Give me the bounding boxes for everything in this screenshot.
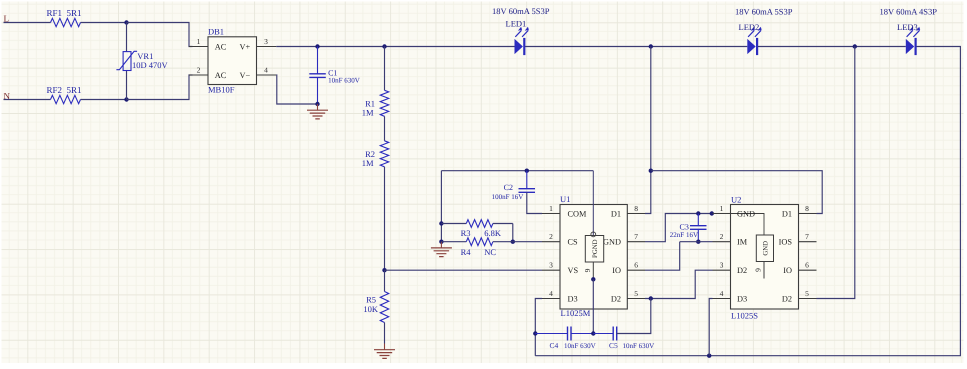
U1 internal PGND line from GND wire [592, 171, 594, 236]
node R1 tap [382, 44, 386, 48]
svg-text:1M: 1M [362, 158, 374, 168]
svg-text:6: 6 [805, 261, 809, 270]
wire IM net down to U1 IO [645, 242, 680, 271]
svg-text:MB10F: MB10F [208, 85, 235, 95]
wire U1 pin4 D3 down to C4 row and bottom rail [535, 299, 542, 356]
capacitor C2 [519, 189, 536, 193]
wire RF1 to junction [81, 22, 127, 24]
svg-text:NC: NC [484, 247, 496, 257]
svg-text:IO: IO [783, 266, 792, 275]
svg-text:10nF 630V: 10nF 630V [623, 342, 655, 350]
U2 pin 6 IO [799, 269, 817, 271]
svg-text:D3: D3 [737, 294, 747, 303]
svg-text:3: 3 [549, 261, 553, 270]
svg-text:18V 60mA 5S3P: 18V 60mA 5S3P [735, 6, 793, 16]
wire VS node to U1 pin3 [385, 269, 543, 271]
svg-text:7: 7 [634, 232, 638, 241]
svg-text:IO: IO [612, 266, 621, 275]
svg-text:AC: AC [215, 71, 227, 80]
wire CS node to U1 pin2 [513, 241, 542, 243]
node junction L-rail [124, 20, 128, 24]
svg-text:DB1: DB1 [208, 26, 224, 36]
svg-text:1: 1 [720, 204, 724, 213]
U2 internal GND box [756, 235, 773, 262]
node R3 left [439, 221, 443, 225]
capacitor C5 [613, 327, 617, 341]
wire R1 to R2 [384, 116, 386, 141]
wire R5 to ground [384, 323, 386, 344]
node pin9/C4/C5 [591, 331, 595, 335]
svg-text:GND: GND [762, 241, 769, 256]
svg-text:C3: C3 [680, 222, 689, 231]
capacitor C2 top lead [526, 171, 528, 189]
U2 pin 8 D1 [799, 213, 817, 215]
wire IM net to U2 pin2 [680, 241, 713, 243]
IC U1 L1025M body [560, 205, 627, 310]
ground under C1 [317, 104, 319, 110]
node ground junction [315, 102, 319, 106]
svg-text:10nF 630V: 10nF 630V [328, 76, 360, 84]
svg-text:R4: R4 [461, 247, 472, 257]
node bottom rail to U2 D3 [707, 354, 711, 358]
svg-text:2: 2 [197, 66, 201, 75]
wire rail to R1 [384, 47, 386, 91]
wire R3 right down to CS [512, 224, 514, 242]
node C3 top tap [696, 211, 700, 215]
svg-text:9: 9 [583, 268, 592, 272]
svg-text:GND: GND [603, 238, 621, 247]
node C4 left junction [533, 331, 537, 335]
capacitor C4 [568, 327, 572, 341]
svg-text:22nF 16V: 22nF 16V [670, 231, 698, 239]
wire N input [4, 99, 51, 101]
wire U2 pin4 D3 down to bottom rail [709, 299, 712, 356]
svg-text:100nF 16V: 100nF 16V [492, 193, 524, 201]
svg-text:VS: VS [568, 266, 579, 275]
U2 pin 3 D2 [713, 269, 731, 271]
svg-text:R5: R5 [366, 295, 376, 305]
varistor VR1 [123, 52, 131, 71]
U1 pin 3 VS [542, 269, 560, 271]
wire C5 up to U1 pin5 row [617, 299, 651, 334]
LED LED2 [747, 39, 755, 54]
LED LED1 [515, 39, 523, 54]
svg-text:PGND: PGND [592, 239, 599, 258]
U1 pin 4 D3 [542, 298, 560, 300]
svg-text:18V 60mA 4S3P: 18V 60mA 4S3P [880, 6, 938, 16]
svg-text:1: 1 [197, 37, 201, 46]
wire DB1 V- to C1 ground node [276, 75, 317, 104]
node U1 D2 tap [649, 296, 653, 300]
svg-text:C4: C4 [550, 341, 559, 350]
wire to DB1 pin2 [127, 75, 193, 100]
svg-text:5: 5 [634, 289, 638, 298]
wire pin9 node to C5 [593, 333, 613, 335]
wire RF2 to junction [81, 99, 127, 101]
wire C4 to pin9 node [571, 333, 593, 335]
wire U2 pin5 D2 to LED2 cathode [817, 47, 855, 299]
svg-text:D1: D1 [611, 209, 621, 218]
wire U1 pin9 to C4/C5 node [592, 279, 594, 333]
DB1 pin 3 [257, 46, 277, 48]
svg-text:IOS: IOS [779, 238, 793, 247]
node R4 left [439, 240, 443, 244]
U2 pin 5 D2 [799, 298, 817, 300]
svg-text:C5: C5 [609, 341, 618, 350]
capacitor C1 bottom lead [317, 77, 319, 104]
svg-text:4: 4 [720, 289, 724, 298]
svg-text:D2: D2 [782, 294, 792, 303]
svg-text:6: 6 [634, 261, 638, 270]
svg-text:4: 4 [264, 66, 268, 75]
wire R2 to VS node [384, 167, 386, 270]
capacitor C3 bottom lead [697, 229, 699, 241]
svg-text:8: 8 [805, 204, 809, 213]
node C1 tap [315, 44, 319, 48]
svg-text:7: 7 [805, 232, 809, 241]
svg-text:2: 2 [549, 232, 553, 241]
svg-text:D2: D2 [737, 266, 747, 275]
wire LED2 to LED3 [758, 46, 906, 48]
svg-text:V−: V− [240, 71, 251, 80]
U2 pin 2 IM [713, 241, 731, 243]
node U2 pin1 connection [710, 211, 714, 215]
wire GND net down to R3/R4 [440, 171, 442, 242]
wire GND net horizontal [441, 170, 593, 172]
svg-text:L1025S: L1025S [731, 311, 758, 321]
wire C4 row [535, 333, 567, 335]
capacitor C2 bottom lead to U1 pin1 [527, 192, 542, 213]
U1 pin 2 CS [542, 241, 560, 243]
svg-text:LED1: LED1 [506, 19, 527, 29]
resistor R1 [380, 90, 388, 116]
U1 pin 6 IO [627, 269, 645, 271]
svg-text:6.8K: 6.8K [484, 228, 502, 238]
svg-text:COM: COM [568, 209, 588, 218]
wire to DB1 pin1 [127, 23, 193, 47]
svg-text:L1025M: L1025M [561, 308, 591, 318]
svg-text:9: 9 [754, 268, 763, 272]
svg-text:10K: 10K [363, 304, 379, 314]
svg-text:5: 5 [805, 289, 809, 298]
svg-text:10nF 630V: 10nF 630V [564, 342, 596, 350]
U2 pin 7 IOS [799, 241, 817, 243]
svg-text:U1: U1 [560, 194, 570, 204]
svg-text:CS: CS [568, 238, 579, 247]
node U1 pin9 junction [591, 277, 595, 281]
wire VS node to R5 [384, 270, 386, 291]
wire LED1 to LED2 [525, 46, 747, 48]
DB1 pin 2 [189, 74, 208, 76]
DB1 pin 4 [257, 74, 277, 76]
ground under R3/R4 [440, 242, 442, 248]
svg-text:U2: U2 [731, 195, 741, 205]
resistor RF2 [51, 95, 81, 103]
svg-text:LED3: LED3 [897, 22, 918, 32]
svg-text:D3: D3 [568, 294, 578, 303]
svg-text:V+: V+ [240, 43, 251, 52]
resistor R4 [441, 241, 466, 243]
wire U1 pin7 GND to U2 pin1 [645, 214, 713, 242]
capacitor C1 top lead [317, 47, 319, 74]
IC U2 L1025S body [731, 205, 799, 310]
wire U1 pin5 D2 to U2 pin3 [645, 270, 713, 298]
svg-text:D1: D1 [782, 209, 792, 218]
node IM net [696, 240, 700, 244]
U2 internal GND line [731, 214, 765, 236]
U1 internal PGND box [585, 236, 603, 263]
svg-text:R3: R3 [461, 228, 471, 238]
svg-text:AC: AC [215, 43, 227, 52]
wire LED1 cathode down to U1 pin8 [645, 47, 651, 214]
resistor R3 [441, 223, 466, 225]
svg-text:18V 60mA 5S3P: 18V 60mA 5S3P [492, 6, 550, 16]
varistor VR1 leads [126, 23, 128, 52]
svg-text:RF2 5R1: RF2 5R1 [47, 85, 82, 95]
node D1 rail tap [649, 169, 653, 173]
wire rail right edge down and bottom return rail [535, 47, 960, 356]
capacitor C3 top lead [697, 214, 699, 226]
svg-text:4: 4 [549, 289, 553, 298]
wire V+ rail segment DB1 to LED1 [276, 46, 514, 48]
resistor R5 [380, 292, 388, 323]
capacitor C1 [309, 74, 326, 78]
capacitor C3 [690, 226, 707, 230]
bridge rectifier DB1 MB10F [208, 37, 257, 85]
U2 pin 4 D3 [713, 298, 731, 300]
resistor R2 [380, 141, 388, 167]
svg-text:GND: GND [737, 209, 755, 218]
U1 pin 8 D1 [627, 213, 645, 215]
svg-text:3: 3 [264, 37, 268, 46]
resistor RF1 [51, 18, 81, 26]
ground under R5 [384, 344, 386, 350]
svg-text:D2: D2 [611, 294, 621, 303]
U1 pin 9 stub [592, 262, 594, 279]
node C2 tap [525, 169, 529, 173]
node VS divider [382, 268, 386, 272]
wire D1 rail to U2 pin8 [651, 171, 822, 214]
svg-text:1: 1 [549, 204, 553, 213]
svg-text:2: 2 [720, 232, 724, 241]
node LED2 cathode branch [853, 44, 857, 48]
U1 pin 5 D2 [627, 298, 645, 300]
node junction N-rail [124, 97, 128, 101]
node CS junction [511, 240, 515, 244]
svg-text:10D 470V: 10D 470V [132, 60, 169, 70]
DB1 pin 1 [189, 46, 208, 48]
svg-text:LED2: LED2 [739, 22, 760, 32]
svg-text:IM: IM [737, 238, 748, 247]
U2 pin 1 GND [713, 213, 731, 215]
U1 pin 7 GND [627, 241, 645, 243]
U2 pin 9 stub [763, 262, 765, 279]
node LED1 cathode branch [649, 44, 653, 48]
LED LED3 [906, 39, 914, 54]
wire L input [4, 22, 51, 24]
svg-text:C2: C2 [504, 183, 513, 192]
svg-text:8: 8 [634, 204, 638, 213]
svg-text:1M: 1M [362, 108, 374, 118]
U1 pin 1 COM [542, 213, 560, 215]
svg-text:3: 3 [720, 261, 724, 270]
svg-text:RF1 5R1: RF1 5R1 [47, 8, 82, 18]
